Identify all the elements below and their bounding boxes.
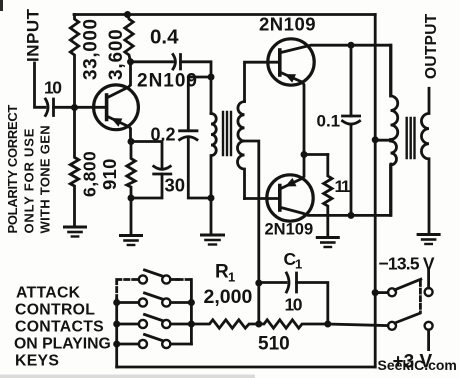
transistor Q3 emitter: [281, 155, 304, 189]
transistor Q3 circle: [267, 175, 313, 221]
wire base Q1: [54, 106, 107, 109]
capacitor 30: [154, 166, 171, 174]
wire -13.5V feed vertical: [374, 15, 377, 368]
svg-text:11: 11: [335, 177, 351, 196]
transistor Q1 base bar: [105, 95, 109, 120]
transistor Q2 emitter: [281, 73, 304, 155]
svg-text:1: 1: [228, 270, 235, 285]
key switch row1: [170, 278, 178, 281]
resistor R1 2,000: [191, 320, 258, 328]
transistor Q1 emitter arrow: [111, 118, 122, 127]
wire 0.2 top branch: [188, 77, 211, 131]
wire T2 center tap: [375, 139, 390, 142]
transistor Q3 collector: [281, 164, 391, 215]
svg-text:10: 10: [44, 78, 62, 98]
transistor Q1 collector: [108, 62, 131, 98]
transistor Q1 emitter: [108, 117, 131, 142]
svg-text:POLARITY CORRECT: POLARITY CORRECT: [5, 105, 20, 234]
scan artifact bottom smear: [0, 375, 255, 378]
transistor Q2 emitter arrow: [285, 74, 297, 83]
key switch left bus dashed: [117, 280, 139, 300]
transistor Q1 circle: [94, 85, 139, 130]
wire top supply rail: [74, 13, 375, 16]
svg-text:2N109: 2N109: [137, 71, 198, 92]
svg-text:+3 V: +3 V: [393, 352, 433, 373]
key switch left bus: [115, 299, 118, 367]
svg-text:30: 30: [165, 175, 186, 196]
svg-text:OUTPUT: OUTPUT: [423, 13, 440, 79]
transformer T1 secondary: [238, 102, 245, 199]
resistor 33,000: [70, 15, 78, 108]
svg-text:1: 1: [295, 257, 302, 272]
transistor Q2 circle: [268, 39, 314, 85]
power switch S1: [375, 291, 388, 294]
capacitor 0.1: [350, 45, 353, 116]
transistor Q3 base bar: [278, 186, 282, 211]
svg-text:10: 10: [285, 295, 303, 315]
svg-text:KEYS: KEYS: [15, 353, 59, 370]
transistor Q3 emitter arrow: [285, 178, 297, 187]
transistor Q2 collector: [281, 45, 391, 96]
svg-text:CONTROL: CONTROL: [15, 302, 95, 319]
wire 0.4 right: [181, 62, 212, 114]
capacitor 10 input: [46, 99, 54, 116]
transformer T1 primary: [211, 114, 216, 199]
wire 0.4 left: [131, 60, 173, 63]
resistor 6,800: [70, 108, 78, 228]
wire secondary tap: [245, 141, 259, 324]
wire bias to switch: [328, 324, 388, 326]
wire input lead: [35, 63, 46, 107]
svg-text:2N109: 2N109: [259, 14, 316, 35]
svg-text:ON PLAYING: ON PLAYING: [14, 336, 111, 353]
key switch row2: [117, 301, 192, 304]
svg-text:3,600: 3,600: [106, 28, 127, 80]
transistor Q2 base bar: [278, 50, 282, 75]
ground output secondary: [418, 233, 439, 236]
svg-text:6,800: 6,800: [80, 151, 100, 197]
resistor 11: [324, 155, 332, 238]
junction dots: [71, 104, 78, 111]
svg-text:ATTACK: ATTACK: [16, 285, 81, 302]
transformer T2 secondary: [421, 88, 429, 234]
svg-text:INPUT: INPUT: [24, 8, 43, 62]
transformer T1 core: [223, 112, 231, 155]
wire 30 bottom: [131, 174, 162, 198]
transformer T2 primary lower: [391, 141, 397, 215]
key switch row3: [117, 323, 192, 326]
capacitor 0.4: [173, 55, 181, 70]
capacitor 0.2: [180, 131, 197, 140]
key switch right bus: [190, 280, 193, 345]
resistor 3,600: [125, 15, 133, 62]
svg-text:0.4: 0.4: [150, 26, 179, 49]
svg-text:CONTACTS: CONTACTS: [15, 319, 104, 336]
svg-text:2,000: 2,000: [204, 286, 253, 308]
wire secondary top to Q2 base: [245, 62, 280, 101]
svg-text:2N109: 2N109: [265, 221, 314, 239]
ground 11: [317, 236, 338, 239]
ground interstage primary: [210, 198, 213, 235]
svg-text:WITH TONE GEN: WITH TONE GEN: [38, 125, 53, 233]
ground 6800: [65, 226, 86, 229]
svg-text:510: 510: [258, 334, 290, 355]
resistor 510: [259, 320, 328, 328]
power switch S2: [388, 322, 396, 330]
ground 910: [130, 198, 133, 236]
svg-text:ONLY FOR USE: ONLY FOR USE: [22, 128, 37, 234]
key switch row4: [117, 343, 192, 346]
wire bottom key bus: [117, 366, 376, 369]
wire emitters to R11: [304, 153, 328, 156]
gang link dashed: [419, 282, 422, 313]
key switch right bus dashed: [178, 278, 191, 281]
transformer T2 core: [407, 118, 415, 158]
wire 0.2 bottom: [188, 137, 211, 198]
svg-text:33,000: 33,000: [81, 18, 102, 80]
svg-text:−13.5 V: −13.5 V: [379, 254, 435, 274]
scan artifact top-left corner: [0, 0, 3, 11]
resistor 910: [127, 142, 135, 199]
wire 30 top branch: [131, 142, 162, 168]
svg-text:0.2: 0.2: [151, 125, 176, 145]
capacitor C1: [259, 281, 286, 284]
wire Q3 base: [245, 197, 280, 200]
svg-text:910: 910: [99, 158, 120, 190]
svg-text:R: R: [215, 262, 229, 283]
transformer T2 primary upper: [391, 45, 398, 139]
svg-text:0.1: 0.1: [317, 112, 341, 131]
